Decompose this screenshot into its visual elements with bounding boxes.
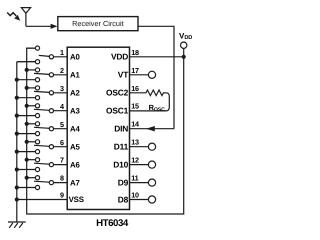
svg-text:7: 7 <box>60 156 64 165</box>
wire receiver output to DIN <box>138 26 174 128</box>
svg-text:A6: A6 <box>70 160 80 169</box>
junction VSS bus pin 9 <box>15 197 19 201</box>
svg-text:VSS: VSS <box>69 195 84 204</box>
svg-text:A1: A1 <box>70 71 80 80</box>
switch S8 / pin 8 A7 <box>17 176 67 190</box>
svg-text:15: 15 <box>131 102 139 111</box>
switch S4 / pin 4 A3 <box>17 104 67 118</box>
junction on VDD bus row 3 <box>25 86 29 90</box>
junction on VDD bus row 7 <box>25 158 29 162</box>
wire antenna to receiver <box>26 24 58 29</box>
svg-text:6: 6 <box>60 138 64 147</box>
svg-text:9: 9 <box>60 191 64 200</box>
svg-text:A3: A3 <box>70 106 80 115</box>
VSS bus wire <box>17 62 38 222</box>
D9 terminal pin 11 <box>130 179 156 186</box>
wire VSS pin 9 <box>17 199 67 201</box>
switch S3 / pin 3 A2 <box>17 86 67 100</box>
switch S1 / pin 1 A0 <box>17 46 67 64</box>
junction on VSS bus row 8 <box>15 185 19 189</box>
svg-text:D8: D8 <box>118 194 129 204</box>
junction on VSS bus row 6 <box>15 150 19 154</box>
svg-text:VT: VT <box>118 70 129 80</box>
IC U1 HT6034 body <box>67 47 129 209</box>
svg-text:D9: D9 <box>118 177 129 187</box>
junction VDD pin 18 <box>182 55 186 59</box>
svg-text:14: 14 <box>131 120 139 129</box>
svg-text:12: 12 <box>131 156 139 165</box>
svg-text:1: 1 <box>60 48 64 57</box>
junction on VDD bus row 8 <box>25 176 29 180</box>
junction on VSS bus row 7 <box>15 167 19 171</box>
switch S2 / pin 2 A1 <box>17 68 67 82</box>
svg-text:D10: D10 <box>113 159 128 169</box>
svg-text:16: 16 <box>131 84 139 93</box>
svg-text:17: 17 <box>131 66 139 75</box>
svg-text:5: 5 <box>60 120 64 129</box>
junction on VSS bus row 2 <box>15 78 19 82</box>
receiver circuit block <box>58 17 138 31</box>
junction on VDD bus row 5 <box>25 122 29 126</box>
ground <box>8 222 26 228</box>
wire DIN pin 14 with arrowhead <box>130 126 175 131</box>
svg-text:A2: A2 <box>70 89 80 98</box>
svg-text:OSC1: OSC1 <box>106 106 129 116</box>
svg-text:D11: D11 <box>114 142 129 152</box>
svg-text:A5: A5 <box>70 142 80 151</box>
junction on VSS bus row 3 <box>15 96 19 100</box>
switch S5 / pin 5 A4 <box>17 122 67 136</box>
D10 terminal pin 12 <box>130 161 156 168</box>
svg-text:A4: A4 <box>70 124 80 133</box>
RF signal arrow <box>7 13 20 21</box>
junction on VSS bus row 5 <box>15 132 19 136</box>
wire VDD pin 18 <box>130 56 184 58</box>
svg-text:2: 2 <box>60 66 64 75</box>
svg-text:Receiver Circuit: Receiver Circuit <box>72 19 124 28</box>
VDD bus wire <box>27 48 184 214</box>
svg-text:10: 10 <box>131 191 139 200</box>
svg-text:DIN: DIN <box>114 124 128 134</box>
D11 terminal pin 13 <box>130 143 156 150</box>
junction on VDD bus row 2 <box>25 68 29 72</box>
svg-text:4: 4 <box>60 102 64 111</box>
svg-text:OSC2: OSC2 <box>106 88 129 98</box>
antenna <box>21 8 30 27</box>
svg-text:VDD: VDD <box>111 52 128 62</box>
svg-text:18: 18 <box>131 48 139 57</box>
junction on VSS bus row 4 <box>15 114 19 118</box>
svg-text:A7: A7 <box>70 178 80 187</box>
junction on VDD bus row 4 <box>25 104 29 108</box>
resistor ROSC <box>130 90 170 113</box>
junction on VDD bus row 6 <box>25 140 29 144</box>
switch S6 / pin 6 A5 <box>17 140 67 154</box>
svg-text:13: 13 <box>131 138 139 147</box>
svg-text:11: 11 <box>131 174 138 183</box>
svg-text:3: 3 <box>60 84 64 93</box>
VT terminal pin 17 <box>130 71 156 78</box>
svg-text:HT6034: HT6034 <box>96 218 129 229</box>
svg-text:8: 8 <box>60 174 64 183</box>
D8 terminal pin 10 <box>130 196 156 203</box>
VDD terminal <box>179 31 192 48</box>
svg-text:A0: A0 <box>70 53 80 62</box>
switch S7 / pin 7 A6 <box>17 158 67 172</box>
